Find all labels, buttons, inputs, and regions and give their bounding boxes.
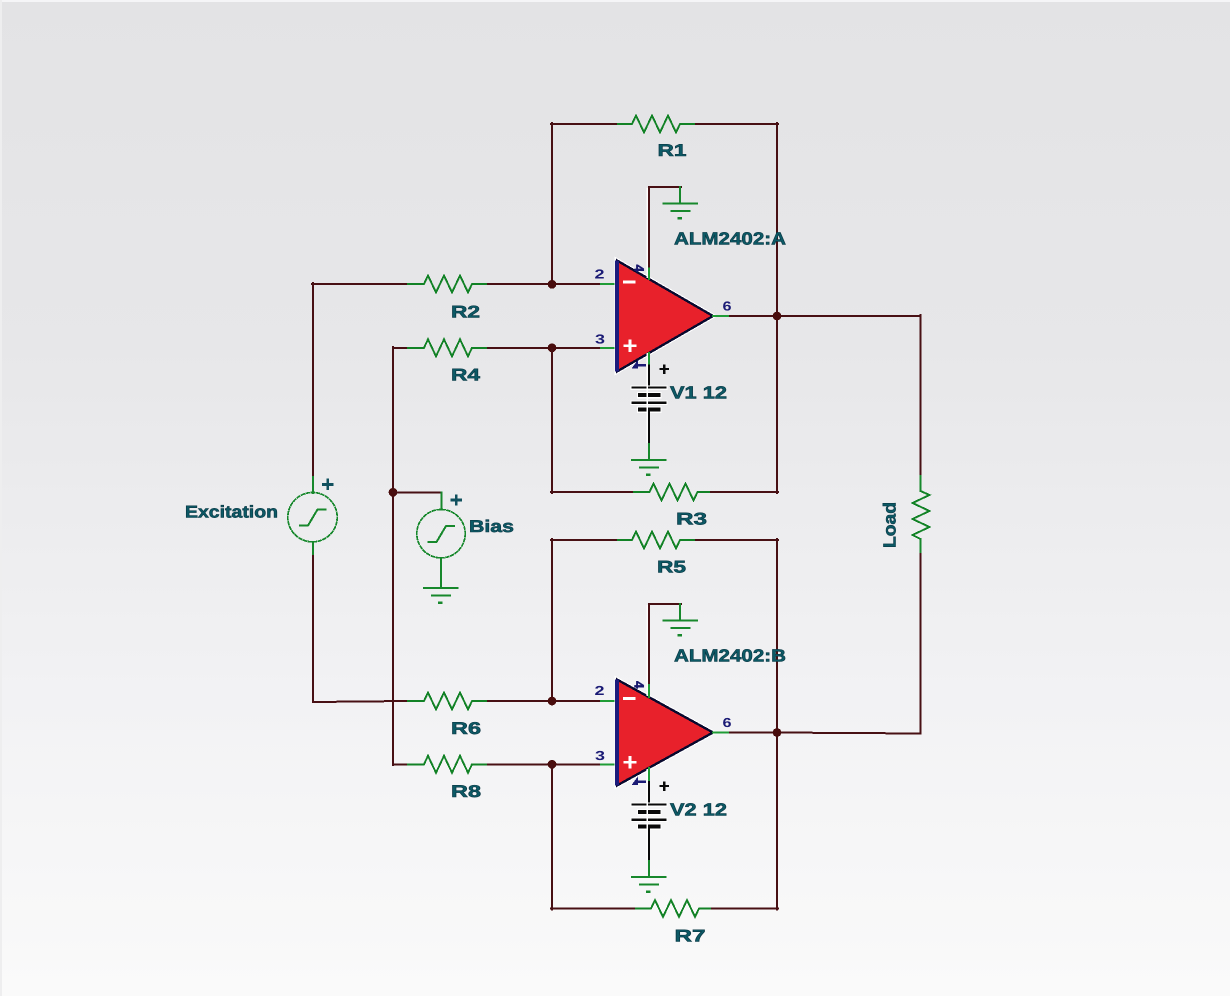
source Excitation: circle with ramp (288, 493, 337, 542)
pin stub: U2 pin 4 (top supply) (648, 685, 650, 697)
battery V2: top lead (648, 782, 650, 804)
svg-text:2: 2 (595, 267, 605, 282)
ground GND near U1 pin4: bars (664, 204, 698, 219)
wire: excitation rail upper (312, 283, 314, 477)
battery V1: plates (631, 385, 668, 413)
node: non-inverting input A junction (548, 343, 557, 352)
label R1 (658, 141, 687, 160)
svg-text:R4: R4 (451, 366, 481, 385)
op-amp B minus symbol (623, 697, 635, 700)
wire: R2 row right segment to op-amp A pin 2 (488, 283, 601, 285)
pin stub: U2 pin 3 (601, 763, 615, 765)
wire: R1 row left segment (551, 123, 618, 125)
node: inverting input A junction (548, 280, 557, 289)
label R3 (676, 510, 707, 529)
pin stub: U2 pin 2 (601, 700, 615, 702)
pin number 2 (U1) (595, 267, 605, 282)
ground GND below V1 (632, 460, 666, 475)
ground GND below V2 (632, 877, 666, 892)
pin 5 arrow marker (U2 bottom supply) (632, 776, 647, 785)
pin number 4 rotated (U1 top supply) (632, 264, 647, 272)
pin stub: U1 bottom supply (648, 353, 650, 366)
ground GND near U2 pin4: bars (664, 621, 698, 636)
source Bias: bottom stem to ground (440, 558, 442, 588)
node: output B junction (773, 728, 782, 737)
wire: feedback loop B left vertical (pin2 node up to R5 row) (551, 539, 553, 702)
ground GND below Bias (424, 588, 458, 603)
node: output A junction (773, 312, 782, 321)
label R8 (451, 782, 481, 801)
label R4 (451, 366, 481, 385)
wire: ground branch op-amp B (pin4 up and over) (649, 604, 681, 686)
label V2 12 (670, 800, 727, 820)
label ALM2402:B (674, 646, 786, 666)
plus sign of Excitation (322, 479, 333, 490)
svg-text:ALM2402:B: ALM2402:B (674, 646, 786, 666)
svg-text:R8: R8 (451, 782, 481, 801)
label Load (rotated) (880, 502, 900, 548)
svg-text:2: 2 (595, 683, 605, 698)
pin 5 arrow marker (U1 bottom supply) (632, 360, 647, 369)
ground GND near U1 pin4: stem (679, 187, 681, 203)
wire: R7 row right segment (712, 908, 778, 910)
svg-text:V1 12: V1 12 (670, 383, 727, 403)
resistor R7 (636, 900, 712, 917)
svg-text:R6: R6 (451, 719, 481, 738)
svg-text:Load: Load (880, 502, 900, 548)
pin halo lines (symbol highlight) (647, 188, 648, 860)
source Bias: top stub (441, 492, 443, 509)
svg-text:Excitation: Excitation (185, 503, 278, 522)
source Excitation: top stub (312, 477, 314, 493)
wire: R4 row right segment to op-amp A pin 3 (488, 347, 601, 349)
wire: R4 row left corner from bias rail (393, 347, 408, 349)
svg-text:4: 4 (632, 681, 647, 689)
node: bias junction (389, 488, 398, 497)
wire: load column bottom (776, 554, 921, 734)
wire: R8 row right segment to op-amp B pin 3 (488, 763, 601, 765)
pin number 2 (U2) (595, 683, 605, 698)
svg-text:4: 4 (632, 264, 647, 272)
wire: load column top (920, 315, 922, 476)
wire: R5 row right segment (696, 539, 778, 541)
node: inverting input B junction (548, 697, 557, 706)
wire: bias rail (R4 corner down to R8 corner) (392, 347, 394, 765)
pin stub: U1 output pin 6 (713, 315, 730, 317)
wire: R3 row left vertical (pin3 node down) (551, 349, 553, 493)
wire: feedback loop A left vertical (inverting node up to R1 row) (551, 123, 553, 285)
pin stub: U1 pin 4 (top supply) (648, 269, 650, 280)
svg-text:6: 6 (723, 715, 732, 730)
battery V2: plates (631, 802, 668, 830)
svg-text:V2 12: V2 12 (670, 800, 727, 820)
battery V2: plus sign (660, 781, 670, 791)
wire: R3 row right segment (711, 491, 778, 493)
pin number 6 (U2) (723, 715, 732, 730)
resistor R6 (408, 693, 488, 710)
wire: V1 to ground (green stem) (648, 444, 650, 460)
resistor R8 (408, 756, 488, 773)
svg-text:R3: R3 (676, 510, 707, 529)
label R6 (451, 719, 481, 738)
label R7 (675, 927, 706, 946)
pin stub: U2 output pin 6 (713, 732, 730, 734)
plus sign of Bias (451, 494, 462, 505)
label R2 (451, 303, 480, 322)
resistor Load (vertical) (913, 476, 930, 554)
pin number 6 (U1) (723, 299, 732, 314)
label V1 12 (670, 383, 727, 403)
svg-text:ALM2402:A: ALM2402:A (674, 229, 786, 249)
battery V1: top lead (648, 366, 650, 387)
op-amp U2 ALM2402:B triangle (615, 680, 713, 786)
source Excitation: bottom stub (312, 542, 314, 556)
wire: output A to right rail junction and to load column (730, 315, 921, 317)
wire: R3 row left segment (551, 491, 634, 493)
svg-text:R5: R5 (657, 558, 686, 577)
wire: output B to right rail junction (730, 732, 778, 734)
resistor R2 (408, 276, 488, 293)
op-amp B plus symbol (623, 756, 636, 768)
battery V1: bottom lead (648, 412, 650, 444)
label Bias (469, 517, 514, 536)
wire: ground branch op-amp A (pin4 up and over) (649, 187, 681, 269)
wire: R1 row right segment (696, 123, 778, 125)
svg-text:3: 3 (595, 748, 605, 763)
resistor R1 (618, 116, 696, 133)
svg-text:3: 3 (595, 332, 605, 347)
wire: R5 row left segment (551, 539, 618, 541)
label Excitation (185, 503, 278, 522)
svg-text:R2: R2 (451, 303, 480, 322)
wire: bias branch horizontal (393, 491, 442, 493)
pin number 3 (U2) (595, 748, 605, 763)
resistor R3 (634, 484, 711, 501)
label ALM2402:A (674, 229, 786, 249)
svg-text:R7: R7 (675, 927, 706, 946)
wire: R2 row from excitation rail to inverting junction (312, 283, 408, 285)
node: non-inverting input B junction (548, 760, 557, 769)
label R5 (657, 558, 686, 577)
pin stub: U1 pin 2 (601, 283, 615, 285)
wire: V2 to ground (green stem) (648, 861, 650, 877)
wire: R7 row left segment (551, 908, 636, 910)
pin number 4 rotated (U2 top supply) (632, 681, 647, 689)
svg-text:Bias: Bias (469, 517, 514, 536)
svg-text:R1: R1 (658, 141, 687, 160)
battery V1: plus sign (660, 364, 670, 374)
svg-text:6: 6 (723, 299, 732, 314)
op-amp A plus symbol (623, 340, 636, 352)
wire: R7 row left vertical (pin3 B node down) (551, 765, 553, 910)
pin stub: U1 pin 3 (601, 347, 615, 349)
battery V2: bottom lead (648, 829, 650, 861)
pin number 3 (U1) (595, 332, 605, 347)
op-amp U1 ALM2402:A triangle (615, 261, 713, 372)
source Bias: circle with ramp (417, 510, 465, 558)
wire: right rail upper (R1 row down to R3 row) (776, 123, 778, 493)
pin stub: U2 bottom supply (648, 768, 650, 782)
ground GND near U2 pin4: stem (679, 604, 681, 620)
wire: R8 row left corner from bias rail (393, 763, 408, 765)
wire: excitation rail lower (313, 556, 408, 702)
wire: right rail lower (R5 row down to R7 row) (776, 539, 778, 910)
op-amp A minus symbol (623, 281, 635, 284)
resistor R4 (408, 339, 488, 356)
wire: R6 row right segment to op-amp B pin 2 (488, 700, 601, 702)
resistor R5 (618, 532, 696, 549)
